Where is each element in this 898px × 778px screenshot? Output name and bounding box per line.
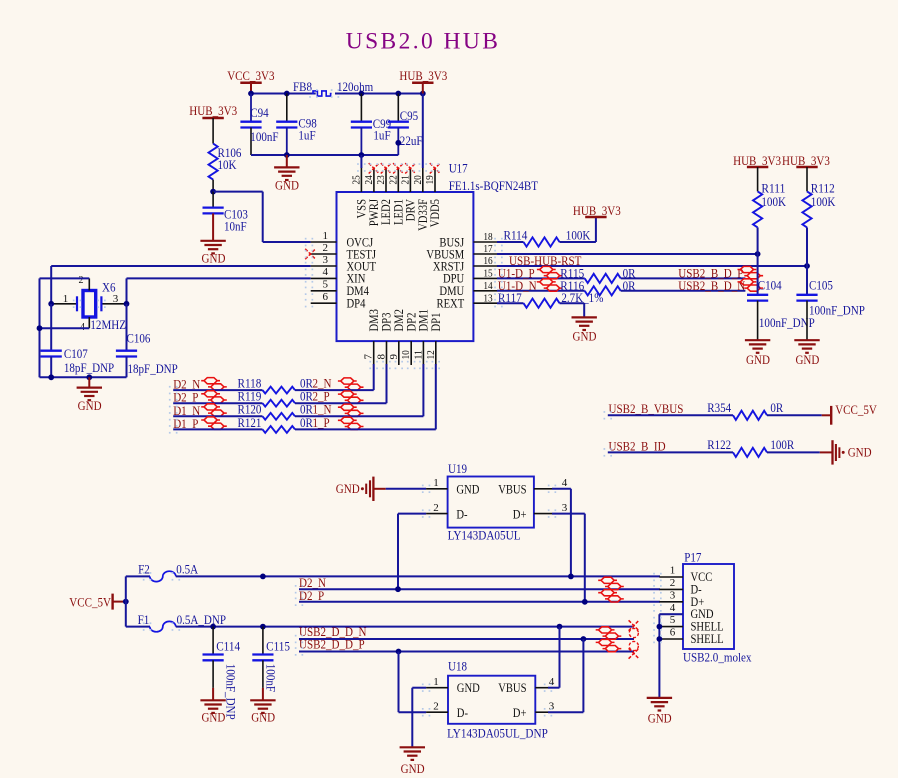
- capacitor C103: [203, 192, 248, 241]
- svg-text:GND: GND: [848, 445, 872, 460]
- svg-text:GND: GND: [78, 398, 102, 413]
- wire U18 pin3 to USB2_D_D_N: [548, 639, 583, 712]
- svg-text:USB2_D_D_P: USB2_D_D_P: [299, 636, 365, 651]
- ground GND below C103: [200, 241, 225, 266]
- svg-text:R121: R121: [238, 415, 262, 430]
- junction crystal pin3: [124, 301, 130, 307]
- junction VBUSM-R111-C104: [755, 251, 761, 257]
- svg-text:1uF: 1uF: [373, 128, 390, 143]
- svg-text:VBUS: VBUS: [498, 681, 526, 695]
- pin 19 VDD5 of U17: [424, 168, 442, 228]
- power port VCC_3V3: [227, 68, 274, 93]
- svg-text:GND: GND: [275, 177, 299, 192]
- pin 3 D+ of U18: [513, 700, 555, 720]
- svg-text:100nF_DNP: 100nF_DNP: [224, 664, 239, 720]
- svg-text:1: 1: [670, 565, 676, 577]
- svg-text:4: 4: [549, 676, 555, 688]
- resistor R117: [498, 290, 604, 308]
- svg-text:C105: C105: [809, 277, 833, 292]
- svg-text:GND: GND: [457, 681, 480, 695]
- pin 1 OVCJ of U17: [311, 230, 374, 250]
- pin 14 DMU of U17: [439, 280, 497, 298]
- svg-text:3: 3: [113, 293, 119, 305]
- svg-text:100K: 100K: [566, 228, 591, 243]
- wire pin18 to R114: [497, 241, 524, 243]
- svg-text:X6: X6: [102, 280, 116, 295]
- no-ERC cross at DNP rail end: [629, 620, 639, 630]
- pin 2 D- of U18: [426, 700, 468, 720]
- svg-text:1: 1: [323, 230, 329, 242]
- svg-text:120ohm: 120ohm: [337, 79, 373, 94]
- diff-pair marker after U1-D_N: [537, 279, 563, 291]
- wire GND to U19 pin1: [386, 488, 426, 490]
- svg-text:100nF: 100nF: [250, 129, 278, 144]
- junction F1-C114: [210, 624, 216, 630]
- wire crystal ground rail: [40, 376, 127, 378]
- pin 12 DP1 of U17: [425, 313, 443, 365]
- svg-text:C95: C95: [400, 108, 418, 123]
- svg-text:F1: F1: [138, 612, 150, 627]
- ground GND below U18: [400, 747, 425, 776]
- svg-text:0R: 0R: [770, 400, 783, 415]
- resistor R111: [753, 167, 787, 227]
- svg-text:C114: C114: [216, 638, 240, 653]
- svg-text:P17: P17: [684, 550, 702, 565]
- ground GND below C114: [200, 700, 225, 724]
- capacitor C107: [41, 304, 115, 378]
- svg-text:4: 4: [323, 266, 329, 278]
- wire R122 to GND: [767, 451, 820, 453]
- svg-text:GND: GND: [336, 481, 360, 496]
- resistor R106: [209, 144, 242, 180]
- svg-text:C107: C107: [64, 346, 88, 361]
- pin 5 SHELL of P17: [659, 614, 723, 633]
- wire F2 to VBUS rail / P17 VCC: [176, 575, 660, 577]
- wire R106 to C103 node: [212, 180, 214, 192]
- svg-text:3: 3: [670, 589, 676, 601]
- wire top rail FB8 to HUB_3V3: [335, 93, 424, 95]
- svg-text:100K: 100K: [761, 194, 786, 209]
- svg-text:GND: GND: [456, 482, 479, 496]
- wire U18 pin4 to DNP rail: [548, 627, 560, 688]
- junction rail-C98: [284, 91, 290, 97]
- value 0R and net 2_P: [300, 389, 330, 404]
- wire R115 to net USB2_B_D_P: [621, 277, 746, 279]
- svg-text:2: 2: [433, 700, 439, 712]
- resistor R120: [238, 402, 295, 420]
- wire USB2_B_VBUS to R354: [608, 414, 733, 416]
- diff-pair marker USB2_D_D_N end: [596, 627, 622, 639]
- svg-text:D-: D-: [457, 706, 468, 720]
- junction F2-F1: [260, 574, 266, 580]
- svg-text:12: 12: [425, 350, 437, 359]
- wire XIN to crystal: [127, 278, 311, 303]
- wire U19 pin3 to D2_P: [552, 514, 585, 602]
- wire R119 to U17 pin: [295, 364, 387, 403]
- capacitor C115: [252, 627, 290, 701]
- diff-pair marker after U1-D_P: [537, 266, 563, 278]
- svg-text:0.5A_DNP: 0.5A_DNP: [177, 612, 226, 627]
- pin 17 VBUSM of U17: [426, 243, 497, 261]
- svg-text:GND: GND: [251, 710, 275, 725]
- fuse F1: [138, 612, 226, 632]
- svg-text:1uF: 1uF: [298, 128, 315, 143]
- no-ERC cross on pin 21: [405, 163, 415, 173]
- wire R114 to HUB_3V3: [560, 217, 596, 242]
- junction DNP rail U18 VBUS: [557, 624, 563, 630]
- ground GND below crystal: [77, 377, 102, 413]
- pin 18 BUSJ of U17: [439, 231, 497, 249]
- junction N-U18: [581, 636, 587, 642]
- ground GND below R117: [572, 317, 597, 343]
- svg-text:GND: GND: [795, 352, 819, 367]
- power port HUB_3V3 at R114: [573, 203, 621, 218]
- svg-text:F2: F2: [138, 562, 150, 577]
- pin 15 DPU of U17: [443, 268, 497, 286]
- junction D2_P-U19: [582, 599, 588, 605]
- junction P17 pin5: [657, 624, 663, 630]
- svg-text:C106: C106: [127, 331, 151, 346]
- svg-text:REXT: REXT: [437, 297, 465, 311]
- svg-text:GND: GND: [746, 352, 770, 367]
- svg-text:DP1: DP1: [429, 313, 443, 332]
- svg-text:2: 2: [323, 242, 329, 254]
- pin 16 XRSTJ of U17: [433, 255, 497, 273]
- diff-pair marker after D2_N: [201, 378, 227, 390]
- wire pin 20 to top rail: [422, 94, 424, 169]
- svg-text:22uF: 22uF: [400, 133, 423, 148]
- ground GND below C115: [250, 700, 275, 724]
- junction rail-C95: [395, 91, 401, 97]
- svg-text:FE1.1s-BQFN24BT: FE1.1s-BQFN24BT: [449, 178, 538, 193]
- pin 6 DP4 of U17: [311, 291, 366, 311]
- pin 22 LED1 of U17: [387, 168, 405, 226]
- svg-text:24: 24: [363, 175, 375, 185]
- svg-text:10K: 10K: [218, 157, 238, 172]
- svg-text:16: 16: [483, 255, 493, 267]
- pin 23 LED2 of U17: [375, 168, 393, 226]
- wire XOUT to crystal: [51, 266, 311, 304]
- svg-text:100nF_DNP: 100nF_DNP: [809, 303, 865, 318]
- svg-text:VBUS: VBUS: [498, 482, 526, 496]
- svg-text:USB2.0_molex: USB2.0_molex: [683, 650, 752, 665]
- resistor R116: [560, 278, 635, 296]
- svg-text:LY143DA05UL_DNP: LY143DA05UL_DNP: [447, 726, 548, 741]
- junction bottom-C99-pin25: [359, 152, 365, 158]
- svg-text:100nF: 100nF: [264, 664, 279, 692]
- capacitor C95: [388, 94, 423, 156]
- diff-pair marker at USB2_B_D_N: [738, 279, 764, 291]
- svg-text:6: 6: [670, 627, 676, 639]
- diff-pair marker before pin: [338, 391, 364, 403]
- svg-text:GND: GND: [401, 761, 425, 776]
- wire R116 to net USB2_B_D_N: [621, 290, 746, 292]
- connection markers: [73, 89, 662, 716]
- no-ERC cross on pin 23: [381, 163, 391, 173]
- no-ERC cross P end: [629, 648, 639, 658]
- capacitor C94: [240, 94, 278, 156]
- svg-text:19: 19: [424, 175, 436, 185]
- wire D2_N row: [173, 389, 262, 391]
- wire to fuse F1: [126, 626, 150, 628]
- svg-text:D+: D+: [513, 508, 527, 522]
- diff-pair marker at USB2_B_D_P: [738, 266, 764, 278]
- value 0R and net 1_N: [300, 402, 332, 417]
- diff-pair marker after D2_P: [201, 391, 227, 403]
- ground GND below C105: [794, 340, 819, 367]
- svg-text:FB8: FB8: [293, 79, 312, 94]
- svg-text:1: 1: [433, 477, 439, 489]
- svg-text:R122: R122: [707, 437, 731, 452]
- svg-text:GND: GND: [201, 710, 225, 725]
- pin 4 VBUS of U19: [498, 477, 568, 496]
- svg-text:4: 4: [670, 602, 676, 614]
- power port VCC_5V left: [69, 594, 126, 610]
- wire D2_P row: [173, 402, 262, 404]
- wire D1_P row: [173, 428, 262, 430]
- svg-text:R117: R117: [498, 290, 522, 305]
- power port HUB_3V3 above R111: [733, 153, 781, 168]
- diff-pair marker after D1_N: [201, 404, 227, 416]
- svg-text:C104: C104: [758, 277, 782, 292]
- svg-text:VCC_3V3: VCC_3V3: [227, 68, 274, 83]
- value 0R and net 2_N: [300, 376, 332, 391]
- svg-text:HUB_3V3: HUB_3V3: [189, 103, 237, 118]
- svg-text:7: 7: [363, 354, 375, 360]
- wire VBUSM pin17 to C104/R111: [497, 253, 758, 255]
- svg-text:USB2_B_ID: USB2_B_ID: [609, 438, 666, 453]
- pin 20 VD33F of U17: [412, 168, 430, 231]
- ground GND below C104: [745, 340, 770, 367]
- svg-text:VCC_5V: VCC_5V: [69, 594, 111, 609]
- junction P17 pin6: [657, 636, 663, 642]
- wire USB2_B_ID to R122: [608, 451, 733, 453]
- svg-text:10: 10: [400, 350, 412, 360]
- pin 5 DM4 of U17: [311, 279, 370, 299]
- svg-text:3: 3: [562, 502, 568, 514]
- capacitor C106: [116, 304, 178, 378]
- junction VCC_5V: [123, 599, 129, 605]
- no-ERC cross on pin 2 TESTJ: [305, 249, 315, 259]
- svg-text:U19: U19: [448, 461, 467, 476]
- power port HUB_3V3 above R112: [782, 153, 830, 168]
- ferrite bead FB8: [293, 79, 332, 96]
- pin 1 VCC of P17: [659, 565, 712, 584]
- wire U18 pin1 to GND: [412, 688, 426, 748]
- svg-text:1: 1: [63, 293, 69, 305]
- svg-text:USB2_B_D_N: USB2_B_D_N: [678, 278, 745, 293]
- power port HUB_3V3 top: [399, 68, 447, 93]
- pin 21 DRV of U17: [399, 168, 417, 222]
- wire R117 to GND: [560, 303, 585, 317]
- svg-text:6: 6: [323, 291, 329, 303]
- wire F1 rail DNP: [176, 626, 634, 628]
- svg-text:DP4: DP4: [347, 297, 367, 311]
- svg-text:23: 23: [375, 175, 387, 185]
- no-ERC cross on pin 19: [430, 163, 440, 173]
- pin 2 D- of P17: [659, 577, 701, 596]
- wire R111 down: [757, 227, 759, 254]
- svg-text:SHELL: SHELL: [691, 632, 724, 646]
- wire U19 pin4 to VBUS rail: [552, 489, 571, 577]
- svg-text:5: 5: [670, 614, 676, 626]
- pin 6 SHELL of P17: [659, 627, 723, 646]
- capacitor C104: [747, 254, 815, 340]
- svg-text:1: 1: [433, 676, 439, 688]
- no-ERC cross on pin 22: [393, 163, 403, 173]
- pin 4 XIN of U17: [311, 266, 366, 286]
- resistor R121: [238, 415, 295, 433]
- junction bottom-C98: [284, 152, 290, 158]
- svg-text:21: 21: [399, 175, 411, 184]
- pin 2 TESTJ of U17: [311, 242, 376, 261]
- junction gnd-C107: [48, 374, 54, 380]
- svg-text:GND: GND: [202, 251, 226, 266]
- wire pin13 to R117: [497, 302, 524, 304]
- resistor R112: [802, 167, 836, 227]
- svg-text:18: 18: [483, 231, 493, 243]
- resistor R119: [238, 389, 295, 407]
- wire D2_P: [299, 601, 660, 603]
- wire USB2_D_D_N: [299, 638, 634, 640]
- diff-pair marker D2_P at P17: [598, 590, 624, 602]
- svg-text:18pF_DNP: 18pF_DNP: [64, 360, 114, 375]
- diff-pair marker before pin: [338, 404, 364, 416]
- svg-text:12MHZ: 12MHZ: [90, 317, 126, 332]
- junction F1-C115: [260, 624, 266, 630]
- svg-text:8: 8: [376, 354, 388, 360]
- wire crystal case pins 2 and 4: [40, 278, 90, 377]
- svg-text:U17: U17: [449, 161, 468, 176]
- diff-pair marker after D1_P: [201, 417, 227, 429]
- wire U18 pin2 to USB2_D_D_P: [399, 652, 427, 713]
- junction gnd-stub: [86, 374, 92, 380]
- pin 8 DP3 of U17: [376, 313, 394, 365]
- svg-text:10nF: 10nF: [224, 218, 247, 233]
- resistor R354: [707, 400, 783, 420]
- resistor R114: [504, 228, 591, 247]
- no-ERC cross on pin 24: [369, 163, 379, 173]
- svg-text:3: 3: [549, 700, 555, 712]
- wire node to OVCJ pin 1: [213, 192, 311, 242]
- svg-text:25: 25: [350, 175, 362, 185]
- wire R118 to U17 pin: [295, 364, 374, 390]
- svg-text:C94: C94: [250, 105, 269, 120]
- svg-text:C115: C115: [266, 638, 290, 653]
- svg-text:2: 2: [79, 275, 84, 286]
- wire XRSTJ pin16 to C105/R112: [497, 265, 807, 267]
- junction C95 bottom: [395, 140, 401, 146]
- svg-text:GND: GND: [573, 329, 597, 344]
- diff-pair marker before pin: [338, 417, 364, 429]
- value 0R and net 1_P: [300, 415, 330, 430]
- svg-text:2: 2: [670, 577, 676, 589]
- ground GND below P17: [647, 698, 672, 726]
- svg-text:18pF_DNP: 18pF_DNP: [128, 361, 178, 376]
- svg-text:15: 15: [483, 268, 493, 280]
- resistor R122: [707, 437, 794, 457]
- pin 3 XOUT of U17: [311, 254, 377, 274]
- ground port GND right of R122: [820, 440, 872, 464]
- wire to fuse F2: [126, 575, 150, 577]
- no-ERC circle P end: [629, 641, 638, 650]
- svg-text:U18: U18: [448, 659, 467, 674]
- junction D2_N-U19: [395, 586, 401, 592]
- svg-text:20: 20: [412, 175, 424, 185]
- svg-text:0.5A: 0.5A: [176, 562, 198, 577]
- svg-text:2: 2: [433, 502, 439, 514]
- svg-text:9: 9: [388, 354, 400, 360]
- pin 25 VSS of U17: [350, 168, 368, 219]
- wire top rail VCC_3V3 to FB8: [250, 93, 316, 95]
- power port VCC_5V right: [822, 402, 878, 425]
- pin 1 GND of U19: [426, 477, 479, 496]
- resistor R118: [238, 376, 295, 394]
- pin 9 DM2 of U17: [388, 309, 406, 365]
- svg-text:13: 13: [483, 292, 493, 304]
- pin 7 DM3 of U17: [363, 309, 381, 365]
- wire bottom join rail of C94 C98 C99 C95: [251, 154, 398, 156]
- pin 4 VBUS of U18: [498, 676, 555, 695]
- wire R120 to U17 pin: [295, 364, 423, 416]
- junction case pin4: [37, 325, 43, 331]
- svg-text:5: 5: [323, 279, 329, 291]
- svg-text:VDD5: VDD5: [428, 199, 442, 227]
- wire P17 GND pin4 down: [659, 614, 683, 698]
- wire pin row R115: [497, 277, 585, 279]
- junction R106-C103-OVCJ: [210, 189, 216, 195]
- diff-pair marker before pin: [338, 378, 364, 390]
- capacitor C105: [796, 266, 865, 340]
- wire R112 down: [806, 227, 808, 266]
- wire pin row R116: [497, 290, 585, 292]
- pin 2 D- of U19: [426, 502, 468, 522]
- pin 13 REXT of U17: [437, 292, 498, 310]
- wire HUB_3V3 to R106: [212, 118, 214, 144]
- no-ERC circle N end: [629, 628, 638, 637]
- pin 10 DP2 of U17: [400, 313, 418, 365]
- capacitor C114: [203, 627, 241, 720]
- pin 3 D+ of P17: [659, 589, 704, 608]
- svg-text:D+: D+: [513, 706, 527, 720]
- svg-text:LY143DA05UL: LY143DA05UL: [448, 528, 521, 543]
- wire D1_N row: [173, 415, 262, 417]
- wire U19 pin2 to D2_N: [398, 514, 426, 590]
- fuse F2: [138, 562, 199, 582]
- power port HUB_3V3 left: [189, 103, 237, 118]
- pin 3 D+ of U19: [513, 502, 568, 522]
- svg-text:3: 3: [323, 254, 329, 266]
- junction rail-C99: [359, 91, 365, 97]
- junction RST-R112-C105: [804, 263, 810, 269]
- capacitor C98: [276, 94, 317, 156]
- pin 1 GND of U18: [426, 676, 480, 695]
- junction crystal pin1: [48, 301, 54, 307]
- diff-pair marker USB2_D_D_P end: [596, 639, 622, 651]
- pin 24 PWRJ of U17: [363, 168, 381, 227]
- junction VBUS-U19: [568, 574, 574, 580]
- svg-text:USB2.0 HUB: USB2.0 HUB: [346, 29, 501, 55]
- wire VCC_5V vertical: [125, 576, 127, 626]
- junction rail-pin20: [420, 91, 426, 97]
- ESD diode U18 body: [448, 676, 535, 724]
- pin 11 DM1 of U17: [412, 309, 430, 365]
- svg-text:HUB_3V3: HUB_3V3: [399, 68, 447, 83]
- svg-text:0R: 0R: [300, 415, 313, 430]
- wire D2_N: [299, 588, 660, 590]
- svg-text:VCC_5V: VCC_5V: [835, 402, 877, 417]
- ground GND below C98: [274, 155, 299, 192]
